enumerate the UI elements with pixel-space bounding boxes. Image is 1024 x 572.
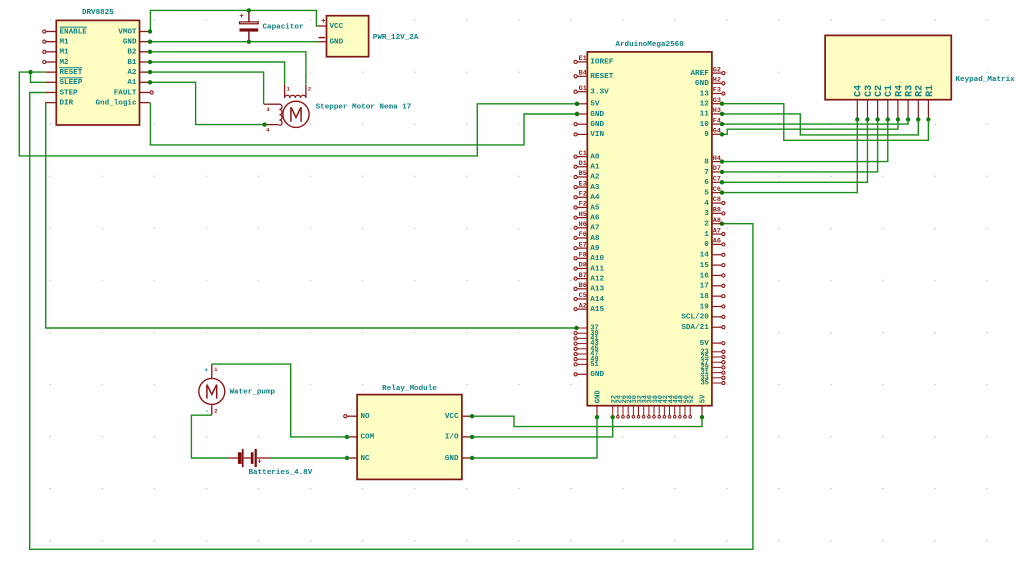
Arduino left pins 37-51 <box>574 325 599 369</box>
svg-text:1: 1 <box>287 86 290 92</box>
svg-text:Water_pump: Water_pump <box>230 388 276 396</box>
junction B2 <box>148 50 152 54</box>
svg-text:DIR: DIR <box>60 99 74 107</box>
wire Arduino 6 to keypad C3 <box>722 120 867 183</box>
svg-text:3.3V: 3.3V <box>590 89 609 97</box>
svg-text:GND: GND <box>590 121 604 129</box>
wire DIR to Arduino pin 37 <box>46 103 577 328</box>
svg-text:SDA/21: SDA/21 <box>681 324 709 332</box>
wire A1 to coil pin 4 <box>150 82 265 124</box>
relay Relay_Module body <box>357 395 462 480</box>
wire RESET/SLEEP to Arduino 5V <box>19 72 577 156</box>
svg-text:C7: C7 <box>713 176 721 184</box>
wire battery + to Relay NC <box>270 457 347 459</box>
svg-text:15: 15 <box>700 262 710 270</box>
svg-text:14: 14 <box>700 252 710 260</box>
wire Relay GND to Arduino bottom GND <box>472 417 597 458</box>
svg-text:FAULT: FAULT <box>114 89 137 97</box>
svg-text:12: 12 <box>700 101 710 109</box>
wire B2 to coil pin 2 <box>150 52 306 85</box>
svg-text:52: 52 <box>688 395 696 403</box>
svg-text:E1: E1 <box>579 55 587 63</box>
svg-text:A13: A13 <box>590 286 604 294</box>
svg-text:9: 9 <box>704 131 709 139</box>
svg-text:11: 11 <box>700 111 710 119</box>
svg-text:2: 2 <box>704 221 709 229</box>
svg-text:4: 4 <box>704 200 709 208</box>
svg-text:GND: GND <box>123 38 137 46</box>
stepper coil B (top) pins 1 2 <box>285 84 312 98</box>
svg-text:Keypad_Matrix: Keypad_Matrix <box>956 76 1016 84</box>
svg-text:A1: A1 <box>127 79 137 87</box>
svg-text:C1: C1 <box>579 150 587 158</box>
svg-text:STEP: STEP <box>60 89 79 97</box>
svg-text:PWR_12V_2A: PWR_12V_2A <box>373 34 419 42</box>
PWR pin VCC <box>318 18 343 31</box>
junction A1 <box>148 80 267 127</box>
battery Batteries_4.8V <box>227 449 269 467</box>
Arduino left pins A0-A15 <box>574 150 605 314</box>
svg-text:GND: GND <box>695 80 709 88</box>
Relay left pins NO COM NC <box>344 413 375 463</box>
svg-text:COM: COM <box>361 434 375 442</box>
svg-text:A7: A7 <box>713 227 721 235</box>
svg-text:35: 35 <box>700 380 708 388</box>
svg-text:SCL/20: SCL/20 <box>681 314 709 322</box>
svg-text:+: + <box>204 367 208 374</box>
svg-text:F2: F2 <box>579 201 587 209</box>
svg-text:H6: H6 <box>579 221 587 229</box>
junction Gnd_logic net <box>575 112 579 116</box>
svg-text:A2: A2 <box>127 69 137 77</box>
svg-text:B8: B8 <box>713 207 721 215</box>
Relay right pins VCC I/O GND <box>445 413 472 463</box>
svg-text:+: + <box>321 18 325 26</box>
wire Arduino 8 to keypad C1 <box>722 120 888 162</box>
svg-text:G3: G3 <box>713 97 721 105</box>
svg-text:Gnd_logic: Gnd_logic <box>95 99 136 107</box>
svg-text:51: 51 <box>590 361 598 369</box>
wire Arduino 11 to keypad R2 <box>722 114 918 135</box>
junction keypad pin row <box>855 117 931 121</box>
svg-text:VIN: VIN <box>590 131 604 139</box>
svg-text:B1: B1 <box>127 59 137 67</box>
junction RESET net <box>28 70 579 106</box>
Arduino right pins 8-0 and 14-21 <box>681 155 725 332</box>
svg-text:RESET: RESET <box>590 73 613 81</box>
svg-text:B6: B6 <box>579 282 587 290</box>
svg-text:18: 18 <box>700 293 710 301</box>
svg-text:D7: D7 <box>713 165 721 173</box>
svg-text:D8: D8 <box>579 262 587 270</box>
svg-text:H2: H2 <box>713 77 721 85</box>
stepper coil A (left) pins 3 4 <box>264 104 282 133</box>
svg-text:H4: H4 <box>713 155 721 163</box>
junction relay COM NC <box>345 435 349 461</box>
motor Water_pump circle <box>199 378 225 404</box>
svg-text:RESET: RESET <box>60 69 83 77</box>
svg-text:B5: B5 <box>579 170 587 178</box>
svg-text:17: 17 <box>700 283 710 291</box>
svg-text:B7: B7 <box>579 272 587 280</box>
wire Arduino 12 to keypad R1 <box>722 104 928 141</box>
Arduino bottom pins GND 22-52 5V <box>595 390 708 419</box>
wire Arduino 7 to keypad C2 <box>722 120 878 172</box>
svg-text:H3: H3 <box>713 107 721 115</box>
svg-text:A15: A15 <box>590 306 604 314</box>
svg-text:6: 6 <box>704 179 709 187</box>
svg-text:F3: F3 <box>713 87 721 95</box>
svg-text:SLEEP: SLEEP <box>60 79 83 87</box>
svg-text:0: 0 <box>704 241 709 249</box>
svg-text:M2: M2 <box>60 59 70 67</box>
svg-text:A2: A2 <box>579 302 587 310</box>
junction Arduino bottom GND 22 5V <box>595 415 704 419</box>
svg-text:ArduinoMega2560: ArduinoMega2560 <box>615 41 684 49</box>
DRV8825 left pins <box>43 27 88 107</box>
svg-text:GND: GND <box>590 371 604 379</box>
svg-text:2: 2 <box>214 409 217 415</box>
Keypad pins C4-R1 <box>854 85 936 120</box>
wire Relay VCC to Arduino bottom 5V <box>472 416 702 426</box>
junction A2 <box>148 70 152 74</box>
svg-text:-: - <box>205 408 209 415</box>
capacitor C? polarized <box>239 10 258 41</box>
svg-text:VMOT: VMOT <box>118 28 137 36</box>
Water_pump pins + - <box>204 364 217 415</box>
junction GND rail <box>148 40 251 44</box>
Arduino right pin 5V <box>700 340 725 348</box>
svg-text:A11: A11 <box>590 265 604 273</box>
svg-text:ENABLE: ENABLE <box>60 28 88 36</box>
svg-text:AREF: AREF <box>690 70 709 78</box>
svg-text:4: 4 <box>266 126 270 133</box>
wire STEP to Arduino pin 2 <box>30 93 753 550</box>
svg-text:GND: GND <box>445 455 459 463</box>
svg-text:GND: GND <box>590 111 604 119</box>
svg-text:A2: A2 <box>590 174 600 182</box>
wire RESET-SLEEP tie <box>31 72 47 82</box>
wire A2 to coil pin 3 <box>150 72 264 104</box>
svg-text:A6: A6 <box>713 238 721 246</box>
wire Gnd_logic to Arduino GND <box>150 103 577 145</box>
svg-text:1: 1 <box>704 231 709 239</box>
svg-text:NO: NO <box>361 413 371 421</box>
power supply PWR_12V_2A body <box>327 16 369 57</box>
svg-text:A8: A8 <box>713 217 721 225</box>
svg-text:F6: F6 <box>579 231 587 239</box>
svg-text:R1: R1 <box>925 85 936 97</box>
wire VMOT to PWR VCC <box>150 10 318 31</box>
wire Relay I/O to Arduino pin 22 <box>472 417 613 437</box>
svg-text:3: 3 <box>266 106 270 113</box>
svg-text:F8: F8 <box>579 252 587 260</box>
wire pump + to Relay COM <box>212 364 347 437</box>
svg-text:B4: B4 <box>579 70 587 78</box>
svg-text:Batteries_4.8V: Batteries_4.8V <box>249 469 313 477</box>
svg-text:F4: F4 <box>713 117 721 125</box>
svg-text:GND: GND <box>595 390 603 404</box>
svg-text:+: + <box>239 13 244 21</box>
svg-text:A9: A9 <box>590 245 600 253</box>
svg-text:A6: A6 <box>590 214 600 222</box>
wire Arduino 9 to keypad R4 <box>722 120 898 135</box>
PWR pin GND <box>318 38 343 47</box>
svg-text:A1: A1 <box>590 164 600 172</box>
svg-text:13: 13 <box>700 90 710 98</box>
junction relay right pins <box>470 414 474 460</box>
microcontroller ArduinoMega2560 body <box>587 52 712 406</box>
svg-text:M1: M1 <box>60 49 70 57</box>
svg-text:G4: G4 <box>713 128 721 136</box>
wire pump - to battery <box>191 415 227 458</box>
svg-text:1: 1 <box>214 367 217 373</box>
svg-text:GND: GND <box>330 39 344 47</box>
svg-text:8: 8 <box>704 158 709 166</box>
svg-text:C5: C5 <box>579 292 587 300</box>
svg-text:D1: D1 <box>579 160 587 168</box>
svg-text:19: 19 <box>700 303 710 311</box>
DRV8825 right pins <box>95 28 153 107</box>
svg-text:DRV8825: DRV8825 <box>82 9 114 17</box>
Arduino left pins power group <box>574 55 614 139</box>
wire B1 to coil pin 1 <box>150 62 285 84</box>
svg-text:NC: NC <box>361 455 371 463</box>
svg-text:G2: G2 <box>713 66 721 74</box>
svg-text:E7: E7 <box>579 241 587 249</box>
svg-text:5V: 5V <box>700 340 710 348</box>
Arduino right pins AREF-9 <box>690 66 725 139</box>
svg-text:A8: A8 <box>590 235 600 243</box>
svg-text:B2: B2 <box>127 49 137 57</box>
Arduino right pins 23-35 <box>700 348 725 387</box>
wire Arduino 10 to keypad R3 <box>722 120 908 125</box>
svg-text:10: 10 <box>700 121 710 129</box>
svg-text:A7: A7 <box>590 225 600 233</box>
svg-text:Stepper Motor Nema 17: Stepper Motor Nema 17 <box>316 104 412 112</box>
junction B1 <box>148 60 152 64</box>
svg-text:VCC: VCC <box>330 23 344 31</box>
svg-text:A3: A3 <box>590 184 600 192</box>
svg-text:5: 5 <box>704 189 709 197</box>
svg-text:A0: A0 <box>590 153 600 161</box>
junction DIR net <box>574 326 578 330</box>
junction Arduino pins 12-5 <box>720 102 724 195</box>
svg-text:A12: A12 <box>590 275 604 283</box>
svg-text:+: + <box>258 459 262 467</box>
svg-text:E3: E3 <box>579 180 587 188</box>
svg-text:A10: A10 <box>590 255 604 263</box>
stepper motor M? circle <box>283 101 309 127</box>
svg-text:7: 7 <box>704 169 709 177</box>
svg-text:5V: 5V <box>590 101 600 109</box>
svg-text:2: 2 <box>308 86 311 92</box>
junction VMOT net <box>148 8 251 34</box>
Arduino left pin GND <box>574 371 605 379</box>
driver U? DRV8825 body <box>56 20 139 125</box>
svg-text:A4: A4 <box>590 194 600 202</box>
svg-text:3: 3 <box>704 210 709 218</box>
svg-text:VCC: VCC <box>445 413 459 421</box>
svg-text:A14: A14 <box>590 296 604 304</box>
svg-text:16: 16 <box>700 272 710 280</box>
svg-text:C8: C8 <box>713 196 721 204</box>
keypad Keypad_Matrix body <box>825 35 951 99</box>
svg-text:Capacitor: Capacitor <box>263 23 304 31</box>
junction Arduino 5V GND left <box>575 102 579 117</box>
wire GND rail DRV-Capacitor-PWR <box>150 41 318 43</box>
svg-text:G1: G1 <box>579 85 587 93</box>
svg-text:I/O: I/O <box>445 434 459 442</box>
svg-text:A5: A5 <box>590 204 600 212</box>
svg-text:H5: H5 <box>579 211 587 219</box>
svg-text:IOREF: IOREF <box>590 59 613 67</box>
svg-text:Relay_Module: Relay_Module <box>382 385 437 393</box>
wire Arduino 5 to keypad C4 <box>722 120 857 193</box>
svg-text:M1: M1 <box>60 38 70 46</box>
junction STEP net <box>720 222 724 226</box>
svg-text:5V: 5V <box>700 394 708 403</box>
svg-text:F2: F2 <box>579 190 587 198</box>
svg-text:C6: C6 <box>713 186 721 194</box>
